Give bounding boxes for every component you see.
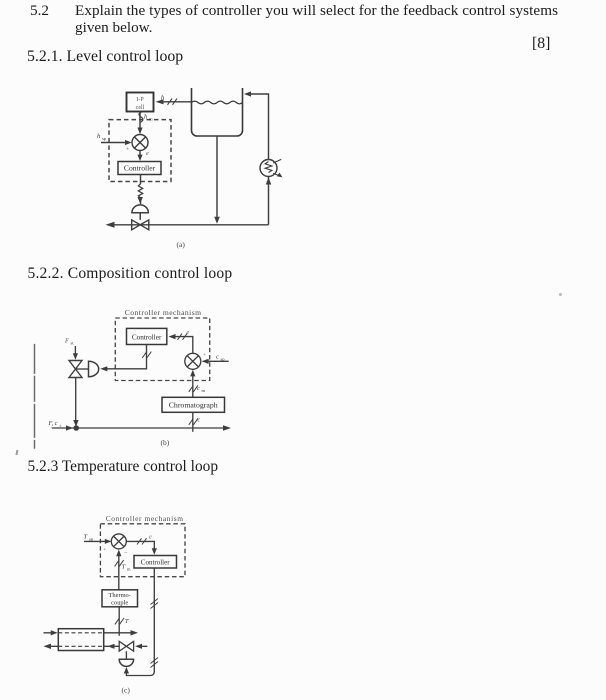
wire: level signal h from tank to transmitter <box>156 99 192 104</box>
valve stem (c) <box>125 651 127 659</box>
comparator (a) <box>132 135 148 151</box>
wire: controller output down to actuator <box>124 568 158 676</box>
wire: measured cm from chromatograph to comparator <box>189 370 206 398</box>
steam valve actuator dome (b) <box>89 361 99 377</box>
wire: steam supply into valve <box>135 644 147 649</box>
outlet pipe with flow arrow <box>106 222 269 228</box>
controller box (a) <box>118 162 161 175</box>
marks [8] <box>532 35 550 53</box>
heading 5.2.2 <box>28 265 233 283</box>
dashed boundary of controller mechanism (b) <box>115 318 209 381</box>
svg-text:Controller: Controller <box>141 558 170 566</box>
chromatograph box <box>162 397 225 412</box>
wire: valve outlet to pipe junction <box>73 378 78 427</box>
dashed boundary of controller mechanism (c) <box>100 524 185 577</box>
wire: tank outlet to pipe <box>214 136 220 224</box>
wire: measured Tm from thermocouple to comparator <box>115 550 131 590</box>
heading 5.2.3 <box>28 458 219 476</box>
wire: set point hsp into comparator <box>97 133 132 153</box>
wire: controller output to valve actuator <box>138 175 142 205</box>
thermocouple box <box>102 590 138 607</box>
recirculation riser pipe <box>244 91 271 224</box>
comparator (c) <box>111 534 126 549</box>
label F, ci <box>48 420 62 428</box>
tank <box>192 88 243 136</box>
wire: error e comparator to controller <box>169 330 193 353</box>
wire: error e comparator to controller <box>126 535 157 555</box>
wire: temperature T tap from outlet pipe <box>115 607 129 636</box>
wire: transmitter to comparator, label hm <box>137 112 153 135</box>
heading 5.2.1 <box>27 48 183 66</box>
pump P1 <box>260 159 283 177</box>
svg-text:–: – <box>123 549 128 556</box>
svg-text:T: T <box>122 564 126 571</box>
comparator (b) <box>185 353 201 369</box>
wire: set point Tsp into comparator <box>84 534 129 556</box>
valve stem (b) <box>76 368 89 370</box>
scan speck <box>15 450 17 455</box>
wire: condensate to vessel <box>104 644 120 649</box>
steam control valve body (b) <box>69 361 82 378</box>
svg-text:Controller mechanism: Controller mechanism <box>106 514 184 523</box>
left boundary line <box>34 344 36 449</box>
wire: controller output to valve actuator <box>100 345 151 372</box>
dashed boundary of controller mechanism (a) <box>109 120 171 182</box>
svg-text:Thermo-: Thermo- <box>109 592 131 599</box>
svg-text:T: T <box>125 618 129 625</box>
wire: error e comparator to controller <box>137 151 149 162</box>
wire: process stream out of exchanger <box>104 630 138 635</box>
process stream pipe (b) <box>52 425 231 431</box>
wire: sample line c from pipe to chromatograph <box>189 412 201 432</box>
svg-text:couple: couple <box>111 599 128 606</box>
junction node <box>73 425 79 431</box>
control valve body (a) <box>132 220 149 230</box>
heading question 5.2 <box>30 2 49 20</box>
wire: set point csp into comparator <box>202 353 229 364</box>
signal break on h wire <box>168 99 178 105</box>
svg-text:+: + <box>103 547 106 553</box>
wire: steam feed into valve <box>73 346 78 360</box>
wire: heated stream out (bottom left) <box>44 644 59 649</box>
controller box (c) <box>134 556 177 569</box>
svg-text:T: T <box>84 534 88 541</box>
heat exchanger vessel <box>58 629 103 651</box>
svg-text:(c): (c) <box>122 686 131 695</box>
label Fst <box>64 338 74 346</box>
level transmitter box LT <box>127 93 154 112</box>
svg-text:e: e <box>149 535 152 541</box>
steam valve actuator dome (c), inverted <box>119 659 133 666</box>
controller box (b) <box>127 328 167 344</box>
svg-text:m: m <box>127 567 131 572</box>
steam control valve body (c) <box>119 641 133 651</box>
wire: process feed in (top pipe) <box>44 630 58 635</box>
control valve actuator dome (a) <box>132 197 149 220</box>
